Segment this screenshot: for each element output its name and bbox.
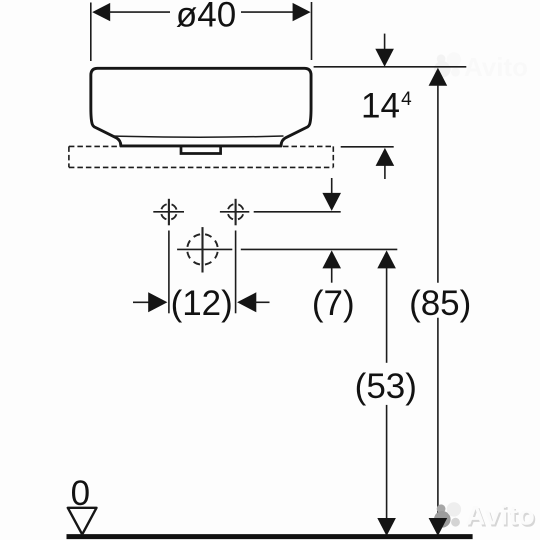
svg-text:(53): (53)	[355, 367, 417, 406]
svg-text:ø40: ø40	[176, 0, 236, 35]
svg-text:Avito: Avito	[466, 501, 536, 531]
svg-text:(7): (7)	[312, 284, 355, 323]
svg-text:Avito: Avito	[464, 52, 528, 82]
svg-text:(12): (12)	[171, 284, 233, 323]
svg-text:0: 0	[71, 474, 90, 513]
svg-text:(85): (85)	[409, 284, 471, 323]
svg-text:14: 14	[361, 87, 400, 126]
svg-text:4: 4	[401, 89, 412, 110]
